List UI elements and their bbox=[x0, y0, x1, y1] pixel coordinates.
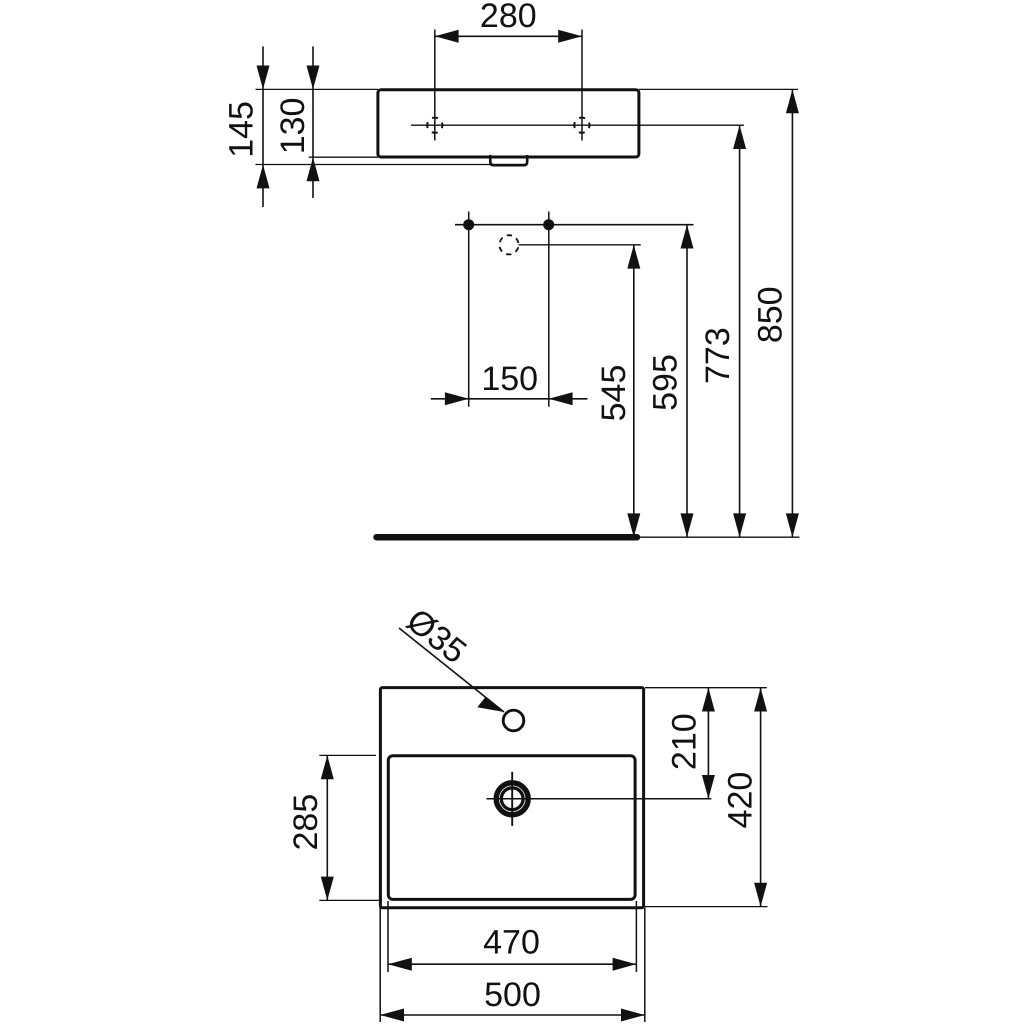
drain vertical center line bbox=[511, 772, 513, 826]
trap cover below basin (elevation) bbox=[490, 155, 527, 165]
inner basin (plan) bbox=[388, 756, 635, 900]
extension line right below plan (for 500) bbox=[644, 908, 646, 1022]
dimension 130 bbox=[274, 47, 320, 199]
dimension 500 bbox=[380, 976, 645, 1022]
dimension 595 bbox=[646, 225, 693, 538]
bottom edge extension line left (for 130) bbox=[309, 156, 378, 158]
extension line top right of plan (for 210 and 420) bbox=[645, 687, 767, 689]
extension line right for 280 bbox=[581, 30, 583, 141]
extension line left for 280 bbox=[434, 30, 436, 141]
dimension 420 bbox=[722, 688, 768, 907]
extension line bottom left of plan (for 285) bbox=[319, 899, 382, 901]
overflow extension line (for 545) bbox=[519, 244, 641, 246]
extension line top left of plan (for 285) bbox=[319, 754, 376, 756]
top edge extension line left bbox=[256, 88, 379, 90]
svg-text:Ø35: Ø35 bbox=[399, 601, 473, 671]
svg-text:150: 150 bbox=[481, 360, 538, 398]
dimension 145 bbox=[222, 47, 269, 208]
washbasin outer rim (plan top view) bbox=[380, 688, 643, 908]
svg-text:420: 420 bbox=[722, 772, 760, 829]
extension line right for 150 bbox=[548, 212, 550, 407]
svg-text:210: 210 bbox=[665, 713, 703, 770]
dimension 773 bbox=[699, 125, 746, 537]
top edge extension line right (for 850) bbox=[639, 88, 798, 90]
mounting hole right (dashed circle) bbox=[574, 118, 589, 133]
svg-text:130: 130 bbox=[274, 98, 312, 155]
overflow hole dashed circle (elevation) bbox=[499, 235, 518, 254]
rear ledge line (elevation) bbox=[256, 164, 528, 166]
dimension 285 bbox=[287, 755, 334, 900]
svg-text:145: 145 bbox=[222, 101, 260, 158]
svg-text:280: 280 bbox=[480, 0, 537, 35]
extension line bottom right of plan (for 420) bbox=[645, 906, 768, 908]
faucet hole (plan) bbox=[503, 710, 524, 731]
svg-text:500: 500 bbox=[484, 976, 541, 1014]
extension line left for 150 bbox=[468, 212, 470, 407]
washbasin body (elevation side view) bbox=[378, 90, 639, 157]
extension line left for 470 bbox=[387, 901, 389, 972]
dimension 850 bbox=[752, 89, 799, 537]
mounting holes center line (elevation) bbox=[411, 124, 744, 126]
dimension 545 bbox=[595, 245, 640, 537]
mounting hole left (dashed circle) bbox=[427, 118, 442, 133]
drain outer ring (plan) bbox=[496, 783, 528, 815]
extension line left below plan (for 500) bbox=[379, 908, 381, 1022]
floor line thin extension bbox=[637, 536, 800, 538]
svg-text:850: 850 bbox=[752, 286, 790, 343]
svg-text:595: 595 bbox=[646, 354, 684, 411]
drain horizontal center line (extension for 210) bbox=[487, 798, 712, 800]
dimension 210 bbox=[665, 688, 715, 799]
dimension 280 bbox=[435, 0, 582, 43]
dimension 150 bbox=[431, 360, 588, 405]
faucet hole dots line (elevation) bbox=[455, 224, 694, 226]
svg-text:285: 285 bbox=[287, 794, 325, 851]
extension line right for 470 bbox=[635, 901, 637, 972]
faucet dot right bbox=[543, 219, 554, 230]
floor line thick bbox=[377, 534, 638, 541]
svg-text:470: 470 bbox=[483, 924, 540, 962]
faucet dot left bbox=[463, 219, 474, 230]
leader line for Ø35 bbox=[399, 601, 504, 712]
svg-text:545: 545 bbox=[595, 365, 633, 422]
svg-text:773: 773 bbox=[699, 327, 737, 384]
drain inner ring (plan) bbox=[501, 788, 523, 810]
dimension 470 bbox=[388, 924, 636, 971]
